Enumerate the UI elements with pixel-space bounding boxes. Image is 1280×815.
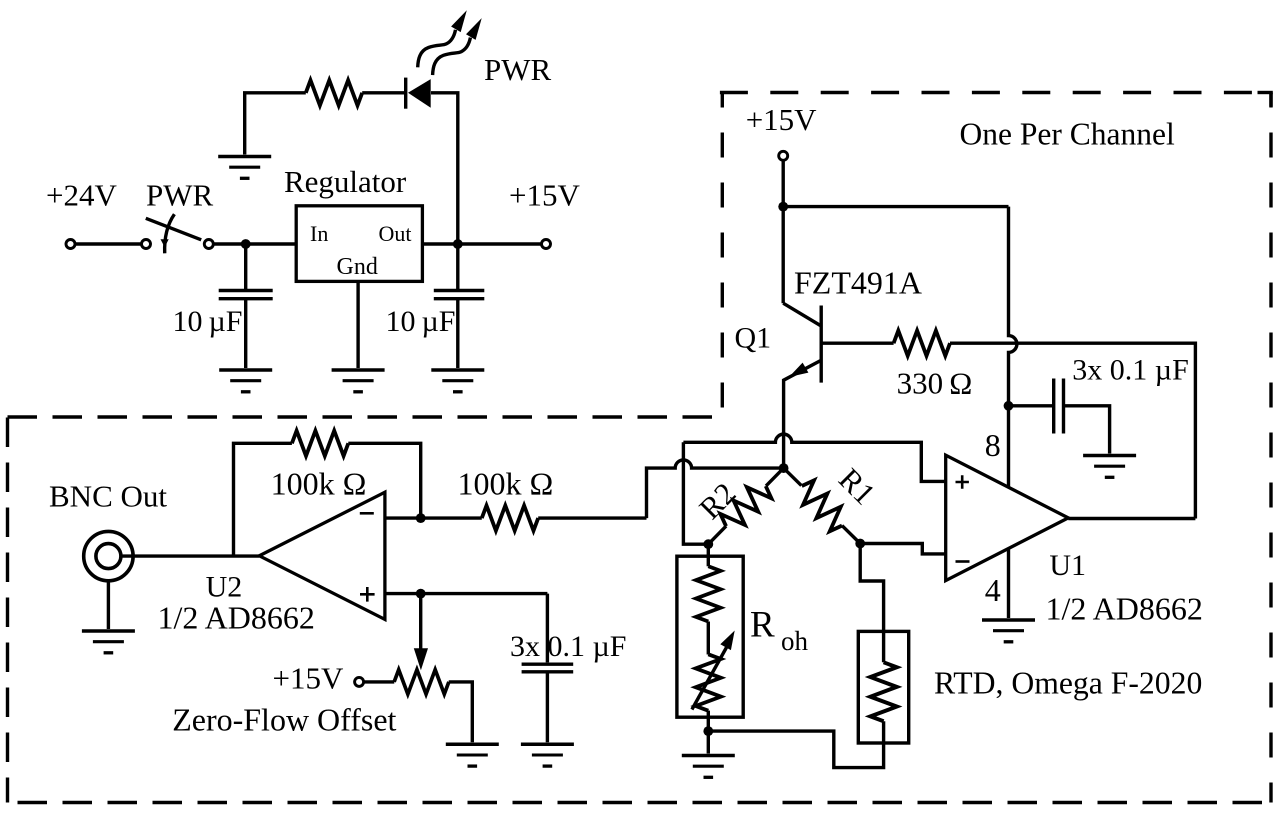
junction U2 minus node bbox=[416, 513, 426, 523]
capacitor 3x 0.1uF channel plates bbox=[1054, 379, 1064, 434]
potentiometer element bbox=[394, 670, 449, 694]
terminal +15V bbox=[542, 240, 551, 249]
wire pot left lead bbox=[364, 680, 395, 683]
switch throw terminal bbox=[204, 240, 213, 249]
dashed border One Per Channel left edge bbox=[721, 93, 724, 418]
svg-text:PWR: PWR bbox=[146, 178, 214, 213]
LED D1 triangle bbox=[408, 79, 431, 108]
dashed border bottom-left box left edge bbox=[6, 418, 9, 803]
ground pin4 bbox=[982, 620, 1035, 642]
ground output cap bbox=[431, 370, 484, 392]
dashed border One Per Channel top-right corner stub bbox=[1258, 91, 1273, 94]
junction R1 bottom node bbox=[855, 539, 865, 549]
resistor R oh fixed part bbox=[696, 566, 721, 621]
LED light arrow 1 bbox=[418, 10, 467, 67]
wire R oh node to RTD bottom bbox=[708, 721, 883, 767]
resistor RTD element bbox=[870, 662, 896, 721]
svg-text:3x 0.1 µF: 3x 0.1 µF bbox=[510, 630, 626, 663]
svg-text:1/2 AD8662: 1/2 AD8662 bbox=[1046, 591, 1203, 627]
svg-text:10 µF: 10 µF bbox=[173, 305, 243, 338]
junction bridge top node bbox=[779, 463, 789, 473]
transistor Q1 emitter bbox=[784, 360, 822, 468]
wire pin8 feed vertical with hop bbox=[1009, 207, 1017, 488]
wire U2 feedback riser bbox=[234, 443, 292, 556]
ground input cap bbox=[219, 370, 272, 392]
resistor R oh variable part bbox=[696, 654, 721, 710]
junction output node bbox=[453, 239, 463, 249]
op-amp U2 triangle bbox=[259, 492, 385, 619]
wire channel rail to pin8 feed bbox=[783, 205, 1008, 208]
wire resistor to LED bbox=[362, 91, 406, 94]
wire switch to regulator bbox=[213, 242, 296, 245]
op-amp U1 triangle bbox=[946, 455, 1069, 580]
wire into R oh bbox=[707, 544, 710, 566]
wire feedback resistor to minus node bbox=[348, 443, 420, 518]
resistor 100k feedback bbox=[292, 431, 348, 456]
dashed border bottom edge bbox=[8, 801, 1272, 804]
switch PWR actuation arrow bbox=[165, 214, 175, 253]
svg-text:4: 4 bbox=[985, 572, 1001, 608]
wire bridge node riser bbox=[683, 442, 708, 544]
svg-text:FZT491A: FZT491A bbox=[794, 265, 922, 301]
R oh box bbox=[677, 556, 743, 717]
svg-text:+15V: +15V bbox=[509, 178, 580, 213]
switch PWR blade bbox=[146, 218, 201, 240]
dashed border bottom-left box top edge bbox=[8, 415, 723, 418]
wire R oh middle bbox=[707, 622, 710, 655]
transistor Q1 bar bbox=[820, 306, 823, 383]
U1 minus symbol bbox=[956, 560, 970, 563]
svg-text:330 Ω: 330 Ω bbox=[897, 366, 973, 401]
svg-text:100k Ω: 100k Ω bbox=[271, 466, 367, 502]
svg-text:RTD, Omega F-2020: RTD, Omega F-2020 bbox=[934, 665, 1202, 700]
U2 plus symbol bbox=[360, 587, 375, 602]
wire bypass cap lead bbox=[1009, 404, 1053, 407]
LED light arrow 2 bbox=[433, 18, 482, 75]
ground bypass cap U2 bbox=[521, 744, 574, 766]
wire LED to +15V rail bbox=[431, 93, 458, 244]
terminal +24V bbox=[66, 240, 75, 249]
wire +15V channel riser bbox=[782, 160, 785, 303]
svg-text:R: R bbox=[750, 604, 775, 645]
capacitor 10uF input bbox=[219, 244, 273, 368]
junction input node bbox=[241, 239, 251, 249]
wire U2 plus to bypass cap bbox=[546, 594, 549, 663]
ground pot bbox=[446, 744, 499, 766]
wire LED branch riser bbox=[245, 93, 306, 155]
regulator U3 box bbox=[296, 206, 422, 282]
wire U1 minus input bbox=[860, 544, 946, 554]
wire U2 minus line bbox=[385, 516, 482, 519]
svg-text:Regulator: Regulator bbox=[284, 164, 407, 199]
wire BNC stem bbox=[107, 581, 110, 629]
wire regulator out to +15V terminal bbox=[422, 242, 541, 245]
svg-text:In: In bbox=[310, 221, 328, 246]
ground bypass cap bbox=[1083, 456, 1136, 478]
R oh variable arrow bbox=[692, 642, 730, 710]
ground regulator bbox=[332, 370, 385, 392]
U1 plus symbol bbox=[956, 475, 969, 488]
junction R oh ground node bbox=[703, 726, 713, 736]
svg-text:U1: U1 bbox=[1049, 549, 1086, 582]
svg-text:PWR: PWR bbox=[484, 52, 552, 87]
resistor R2 bbox=[717, 477, 775, 535]
svg-text:1/2 AD8662: 1/2 AD8662 bbox=[158, 600, 315, 636]
svg-text:+24V: +24V bbox=[46, 178, 117, 213]
regulator gnd pin wire bbox=[356, 281, 359, 368]
ground R oh bbox=[682, 756, 735, 778]
svg-text:U2: U2 bbox=[206, 570, 243, 603]
svg-text:oh: oh bbox=[781, 626, 809, 656]
svg-text:Gnd: Gnd bbox=[337, 254, 378, 280]
dashed border One Per Channel top edge bbox=[720, 91, 1271, 94]
svg-text:+15V: +15V bbox=[746, 102, 817, 137]
wire U1 plus input with hop bbox=[683, 434, 945, 481]
ground BNC bbox=[82, 631, 135, 653]
svg-text:+15V: +15V bbox=[273, 661, 344, 696]
junction bypass cap node bbox=[1004, 401, 1014, 411]
wire pot right lead to ground bbox=[449, 682, 473, 742]
LED D1 cathode bar bbox=[404, 78, 407, 109]
svg-text:One Per Channel: One Per Channel bbox=[960, 116, 1175, 151]
svg-text:10 µF: 10 µF bbox=[386, 305, 456, 338]
resistor 100k input bbox=[482, 505, 538, 530]
RTD box bbox=[858, 631, 908, 743]
transistor Q1 emitter arrow bbox=[789, 363, 808, 377]
wire 100k input to bridge bbox=[538, 516, 646, 519]
U2 minus symbol bbox=[360, 512, 374, 515]
svg-text:Q1: Q1 bbox=[735, 322, 772, 355]
svg-text:Zero-Flow Offset: Zero-Flow Offset bbox=[172, 702, 396, 738]
svg-text:100k Ω: 100k Ω bbox=[458, 466, 554, 502]
wire R oh bottom bbox=[707, 711, 710, 754]
transistor Q1 collector bbox=[783, 303, 821, 326]
switch PWR pole terminal bbox=[142, 240, 151, 249]
terminal +15V channel bbox=[779, 151, 788, 160]
wire feedback to bridge with hop bbox=[647, 460, 784, 518]
wire pin4 to ground bbox=[1007, 549, 1010, 619]
terminal +15V pot bbox=[355, 677, 364, 686]
junction U2 plus node bbox=[416, 589, 426, 599]
svg-text:8: 8 bbox=[985, 427, 1001, 463]
potentiometer wiper arrow bbox=[419, 594, 422, 650]
resistor LED series bbox=[306, 80, 362, 105]
capacitor 3x 0.1uF U2 plates bbox=[522, 664, 574, 672]
wire bypass cap U2 to ground bbox=[546, 672, 549, 743]
junction channel rail bbox=[778, 202, 788, 212]
resistor R1 bbox=[793, 477, 851, 535]
wire 330 to U1 output riser bbox=[950, 343, 1195, 518]
svg-text:BNC Out: BNC Out bbox=[49, 479, 167, 514]
dashed border right edge bbox=[1269, 93, 1272, 803]
junction R2 bottom node bbox=[703, 539, 713, 549]
wire bypass cap to ground bbox=[1065, 406, 1110, 454]
BNC connector inner bbox=[96, 544, 121, 569]
wire BNC to U2 output bbox=[121, 554, 260, 557]
ground LED branch bbox=[218, 157, 271, 179]
BNC connector outer bbox=[84, 531, 133, 580]
svg-text:Out: Out bbox=[379, 221, 412, 246]
wire R1 node to RTD top bbox=[860, 544, 883, 663]
wire U2 plus line bbox=[385, 592, 548, 595]
transistor Q1 base lead bbox=[821, 342, 893, 345]
wire +24V to switch bbox=[76, 242, 142, 245]
resistor 330 ohm bbox=[894, 331, 950, 356]
wire U1 output bbox=[1068, 517, 1195, 520]
svg-text:3x 0.1 µF: 3x 0.1 µF bbox=[1072, 354, 1188, 387]
capacitor 10uF output bbox=[434, 244, 485, 368]
